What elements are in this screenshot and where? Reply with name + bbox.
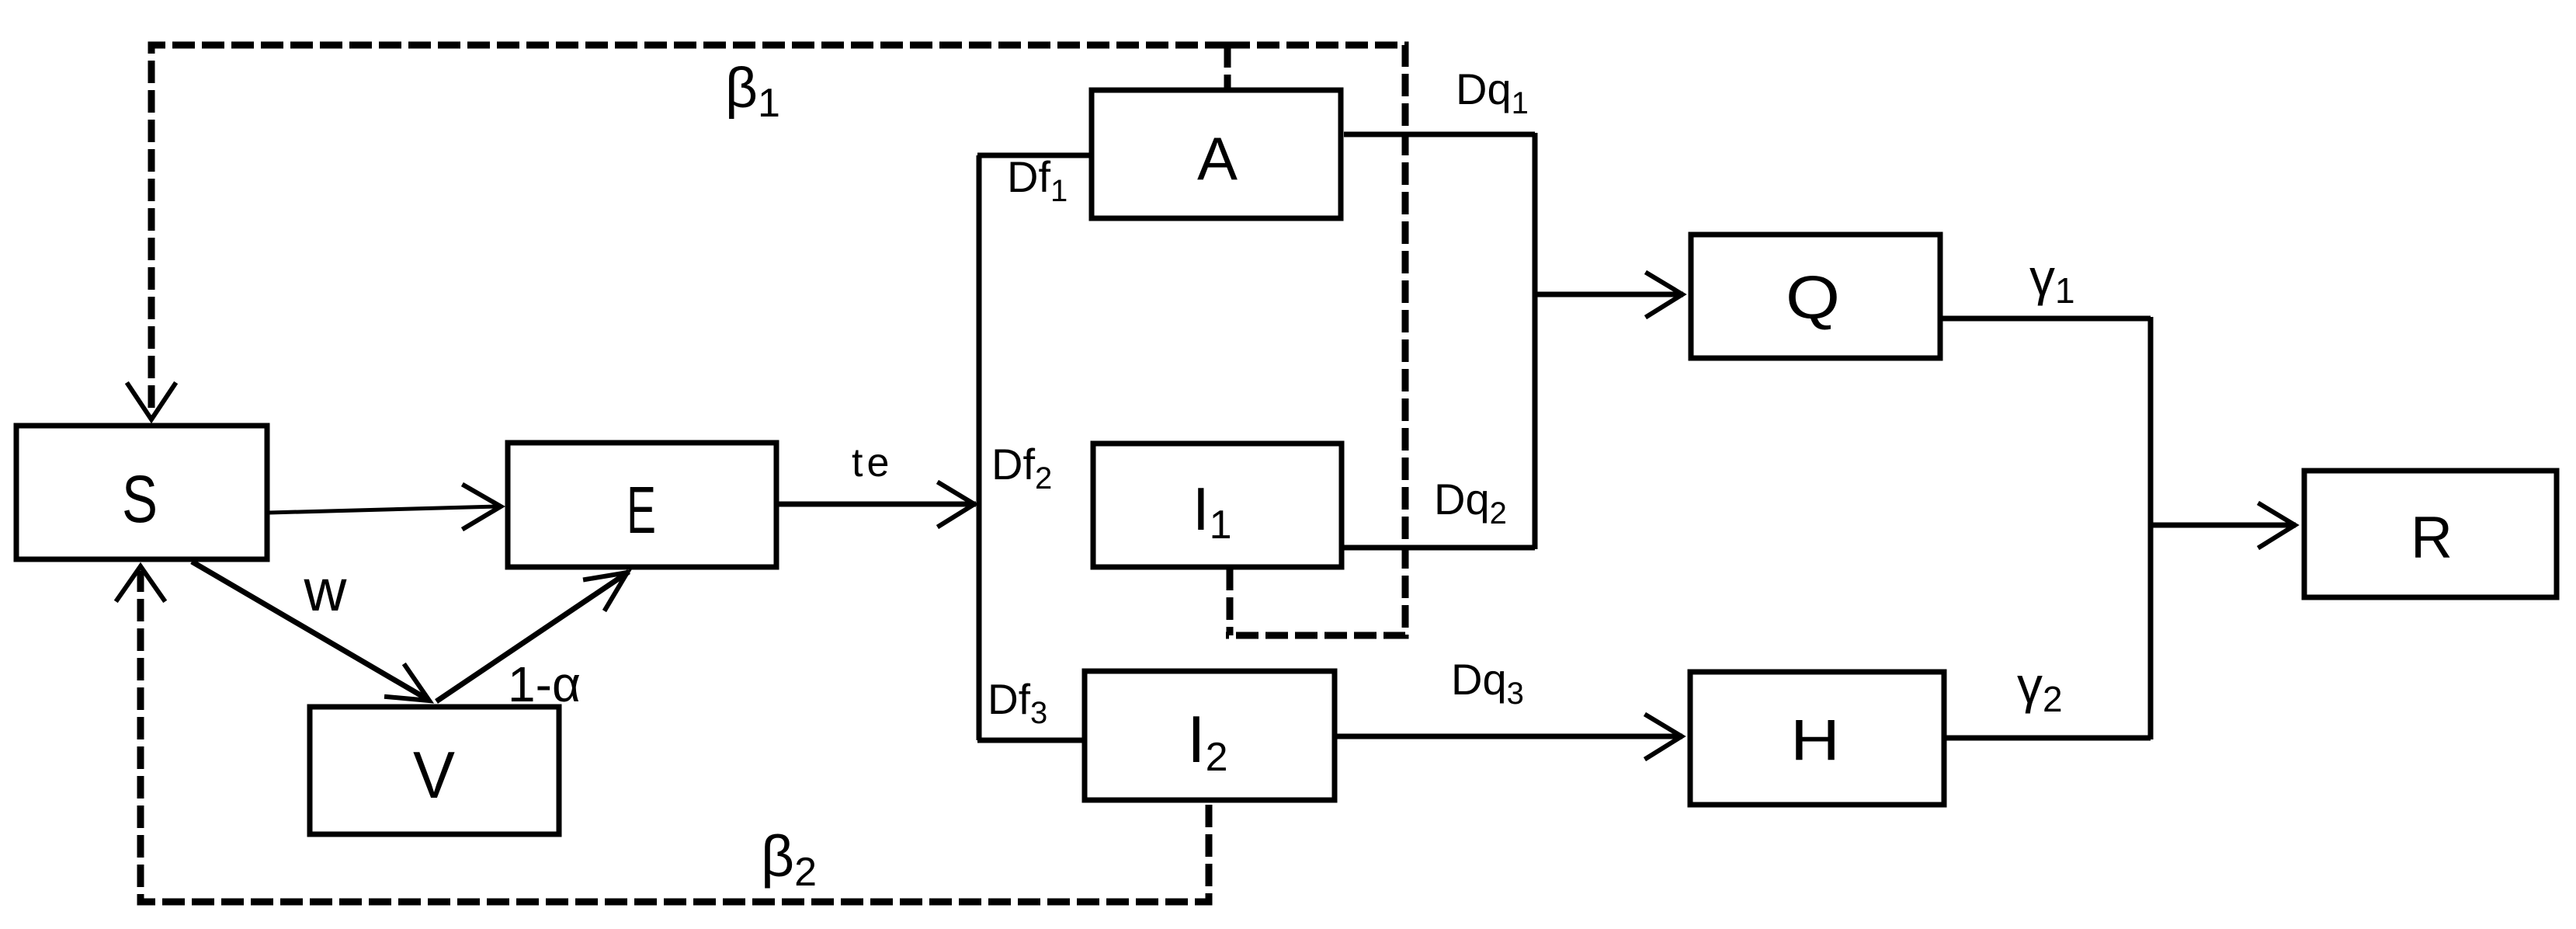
wire Dq1: A to merge line [1344,132,1535,137]
arrowhead into Q left [1647,273,1682,316]
arrowhead into R left [2260,504,2295,547]
arrowhead into H left [1647,715,1682,758]
wire V to E diagonal [436,572,629,701]
box S [16,426,267,559]
svg-text:w: w [304,558,348,624]
dashed group box around A and I1 [1226,45,1405,635]
box H [1690,672,1944,805]
wire S to V diagonal [192,562,429,700]
svg-text:S: S [122,462,158,537]
svg-text:H: H [1790,708,1840,772]
svg-text:R: R [2411,505,2453,571]
wire to Q [1535,292,1683,297]
node splitter vertical line Df [977,155,982,740]
wire beta1 dashed: S top feedback from dashed group box [151,45,1227,416]
box I2 [1085,671,1335,800]
dashed group box left edge bottom stub [1227,568,1234,635]
box Q [1691,235,1940,358]
wire gamma2: H to merge line [1946,736,2151,741]
svg-text:A: A [1197,124,1238,193]
svg-text:E: E [627,474,656,548]
svg-text:te: te [852,440,893,485]
wire te: E to splitter [779,502,976,507]
box I1 [1093,444,1342,567]
svg-text:Q: Q [1786,263,1840,332]
arrowhead into S top [128,384,175,419]
arrowhead into E left [464,485,501,528]
box A [1092,90,1341,218]
arrowhead into V top [387,666,429,701]
dashed group box left edge top stub [1224,45,1231,89]
wire gamma1: Q to merge line [1942,316,2151,322]
arrowhead te at splitter [939,483,974,526]
node merge vertical line Dq [1533,133,1538,549]
svg-text:1-α: 1-α [508,656,581,712]
wire Df1 connector to A [977,153,1091,158]
svg-text:V: V [413,739,455,812]
node merge vertical line gamma [2148,317,2154,739]
box R [2304,471,2557,597]
wire Df3 connector to I2 [977,738,1082,743]
wire S to E [269,506,497,513]
wire Dq3: I2 to H [1337,734,1682,739]
box E [508,443,776,567]
arrowhead into S bottom [117,566,164,600]
wire beta2 dashed: I2 bottom feedback to S bottom [141,571,1209,902]
box V [310,707,559,834]
wire Dq2: I1 to merge line [1344,545,1535,551]
arrowhead into E bottom [585,572,627,609]
wire to R [2151,523,2296,528]
